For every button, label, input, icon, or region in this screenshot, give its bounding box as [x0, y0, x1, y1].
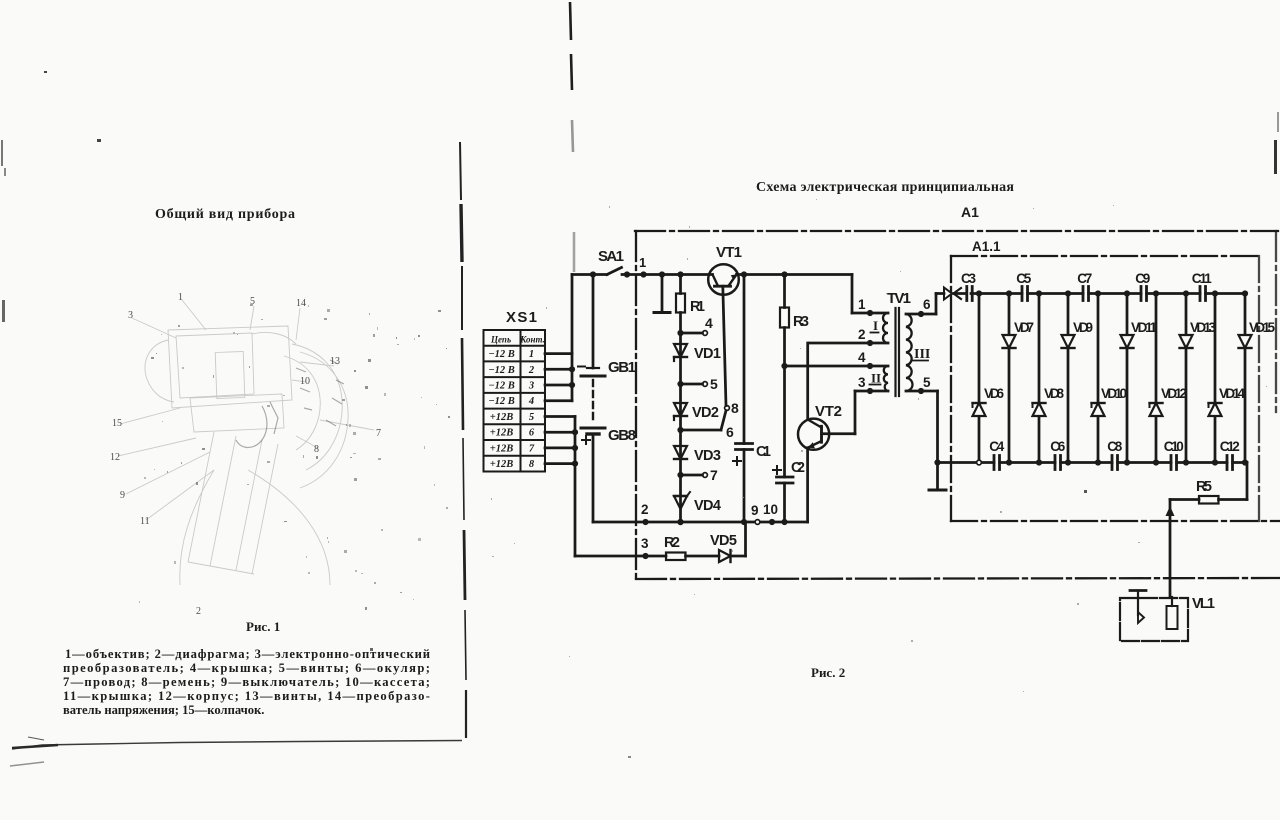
TV1 pin1 wire from top rail	[851, 275, 854, 314]
svg-text:VD6: VD6	[984, 386, 1004, 401]
svg-text:−12 В: −12 В	[488, 349, 515, 360]
svg-text:8: 8	[731, 400, 739, 416]
capacitor C10	[1170, 456, 1173, 470]
svg-text:14: 14	[296, 298, 306, 309]
svg-text:VD10: VD10	[1101, 386, 1127, 401]
svg-text:GB1: GB1	[608, 359, 636, 376]
svg-text:C10: C10	[1164, 439, 1184, 454]
svg-text:2: 2	[196, 606, 201, 617]
resistor R5	[1199, 496, 1219, 504]
svg-text:VD15: VD15	[1249, 320, 1275, 335]
svg-text:C9: C9	[1135, 271, 1150, 286]
svg-text:TV1: TV1	[887, 290, 911, 307]
svg-text:3: 3	[641, 536, 649, 551]
svg-text:6: 6	[726, 424, 734, 440]
svg-text:+12В: +12В	[490, 443, 514, 454]
svg-text:C12: C12	[1220, 439, 1240, 454]
connector XS1 table	[484, 330, 546, 472]
svg-text:XS1: XS1	[506, 309, 537, 326]
diode VD5	[719, 550, 731, 562]
svg-text:R5: R5	[1196, 479, 1212, 495]
svg-text:1: 1	[529, 349, 534, 360]
svg-text:преобразователь; 4—крышка; 5: преобразователь; 4—крышка; 5—винты; 6—ок…	[63, 661, 430, 675]
svg-text:5: 5	[923, 375, 931, 390]
VL1 screen electrode	[1171, 597, 1173, 606]
svg-text:VT2: VT2	[815, 403, 842, 420]
wire VT1 base down to contact 8	[723, 286, 726, 405]
svg-text:VL1: VL1	[1192, 596, 1215, 612]
diode VD3	[679, 430, 682, 475]
sketch darker strokes	[236, 360, 344, 447]
svg-text:VD4: VD4	[694, 498, 721, 514]
module A1.1 boundary dash-dot box	[951, 256, 1280, 521]
svg-text:C4: C4	[989, 439, 1004, 454]
output wire with arrow down to VL1	[1169, 500, 1172, 598]
svg-text:1: 1	[178, 292, 183, 303]
node 2 rail	[593, 521, 808, 524]
svg-text:VD14: VD14	[1219, 386, 1245, 401]
svg-text:4: 4	[858, 350, 866, 365]
scan speckle noise	[139, 199, 1267, 692]
svg-text:Схема электрическая принципи: Схема электрическая принципиальная	[756, 180, 1014, 195]
svg-text:VD5: VD5	[710, 533, 737, 549]
svg-text:11: 11	[140, 516, 150, 527]
svg-text:10: 10	[300, 376, 310, 387]
svg-text:13: 13	[330, 356, 340, 367]
svg-text:−12 В: −12 В	[488, 381, 515, 392]
node 10	[769, 519, 775, 525]
diode VD14 and its column wire	[1214, 294, 1217, 463]
capacitor C6	[1054, 456, 1057, 470]
node 4 tap	[677, 330, 683, 336]
chassis stub on top wire	[661, 275, 664, 313]
TV1 pin6 wire to multiplier input	[906, 313, 936, 316]
main top wire	[572, 273, 607, 276]
capacitor C3	[965, 287, 968, 301]
svg-text:VD2: VD2	[692, 405, 719, 421]
svg-text:2: 2	[858, 327, 866, 342]
junction GB1 top	[590, 271, 596, 277]
svg-text:4: 4	[528, 396, 534, 407]
svg-text:VD1: VD1	[694, 346, 721, 362]
wire VT2 collector up to TV1 pin2	[806, 343, 809, 420]
svg-text:5: 5	[529, 412, 534, 423]
svg-text:10: 10	[763, 502, 778, 517]
diode VD7 and its column wire	[1008, 294, 1011, 463]
svg-text:R2: R2	[664, 535, 680, 551]
svg-text:2: 2	[528, 365, 535, 376]
node 1 (pin of A1)	[640, 271, 646, 277]
svg-text:Общий вид прибора: Общий вид прибора	[155, 207, 295, 222]
svg-text:+12В: +12В	[490, 459, 514, 470]
svg-text:C5: C5	[1016, 271, 1031, 286]
TV1 core	[894, 308, 896, 396]
wire VD5 up to node2 rail	[744, 522, 747, 556]
svg-text:+12В: +12В	[490, 428, 514, 439]
diode VD6 and its column wire	[978, 294, 981, 463]
TV1 pin4 wire	[785, 365, 889, 368]
TV1 primary winding II	[884, 366, 888, 391]
diode VD15 and its column wire	[1244, 294, 1247, 463]
capacitor C4	[993, 456, 996, 470]
svg-text:C7: C7	[1077, 271, 1092, 286]
misc faint marks	[10, 762, 44, 766]
battery GB1	[592, 275, 595, 369]
contact 9	[755, 520, 760, 525]
capacitor C7	[1082, 287, 1085, 301]
svg-text:1: 1	[858, 297, 866, 312]
wire VT2 base to TV1 pin3	[822, 432, 856, 435]
svg-text:II: II	[871, 371, 881, 386]
node 7 tap	[677, 472, 683, 478]
node 5 tap	[677, 381, 683, 387]
svg-text:A1.1: A1.1	[972, 239, 1001, 254]
svg-text:11—крышка; 12—корпус; 13—вин: 11—крышка; 12—корпус; 13—винты, 14—преоб…	[63, 689, 430, 703]
svg-text:I: I	[873, 318, 878, 333]
svg-text:VD7: VD7	[1014, 320, 1034, 335]
page fold dashes top	[570, 2, 574, 272]
svg-text:7: 7	[710, 467, 718, 483]
zener VD2	[679, 384, 682, 430]
figure sketch of device (faint)	[118, 300, 374, 585]
svg-text:−12 В: −12 В	[488, 365, 515, 376]
svg-text:R3: R3	[793, 314, 809, 330]
svg-text:VD8: VD8	[1044, 386, 1064, 401]
diode VD8 and its column wire	[1038, 294, 1041, 463]
callout numbers	[110, 292, 381, 617]
left page right edge (scan)	[460, 142, 466, 738]
svg-text:8: 8	[529, 459, 535, 470]
svg-text:VD9: VD9	[1073, 320, 1093, 335]
junction R3/C2/pin4	[781, 363, 787, 369]
TV1 secondary winding III	[906, 314, 913, 391]
svg-text:15: 15	[112, 418, 122, 429]
svg-text:3: 3	[528, 381, 534, 392]
ground (chassis)	[934, 459, 940, 465]
svg-text:C3: C3	[961, 271, 976, 286]
svg-text:VD3: VD3	[694, 448, 721, 464]
svg-text:SA1: SA1	[598, 248, 624, 265]
svg-text:VD13: VD13	[1190, 320, 1216, 335]
svg-text:4: 4	[705, 315, 713, 331]
diode VD12 and its column wire	[1155, 294, 1158, 463]
svg-text:12: 12	[110, 452, 120, 463]
svg-text:5: 5	[710, 376, 718, 392]
svg-text:8: 8	[314, 444, 319, 455]
diode VD4	[679, 475, 682, 522]
capacitor C11	[1199, 287, 1202, 301]
figure 1 legend text	[63, 647, 430, 717]
svg-text:6: 6	[529, 428, 535, 439]
capacitor C12	[1226, 456, 1229, 470]
wire from C12 to R5	[1246, 463, 1249, 500]
row 3 wire with R2 and VD5	[575, 555, 666, 558]
node 6 stub and switch arm to node 8	[677, 427, 683, 433]
svg-text:3: 3	[128, 310, 133, 321]
TV1 primary winding I	[883, 313, 888, 343]
svg-text:Рис. 2: Рис. 2	[811, 665, 845, 680]
dashed battery stack between GB1 and GB8	[592, 380, 594, 424]
svg-text:2: 2	[641, 502, 649, 517]
svg-text:6: 6	[923, 297, 931, 312]
switch SA1 arm	[607, 268, 622, 275]
svg-text:7: 7	[529, 443, 535, 454]
svg-text:C1: C1	[756, 444, 771, 460]
TV1 pin5 wire down to common rail	[906, 390, 938, 393]
wire GB8 minus down to node2 rail	[592, 434, 595, 522]
svg-text:7—провод; 8—ремень; 9—выключ: 7—провод; 8—ремень; 9—выключатель; 10—ка…	[63, 675, 430, 689]
VL1 photocathode electrode	[1130, 589, 1146, 592]
diode VD11 and its column wire	[1126, 294, 1129, 463]
svg-text:GB8: GB8	[608, 427, 636, 444]
svg-text:Цепь: Цепь	[490, 335, 511, 345]
multiplier top rail	[971, 292, 1022, 295]
wires XS1 rows 5-8 to +12V bus	[545, 415, 575, 418]
svg-text:C8: C8	[1107, 439, 1122, 454]
svg-text:R1: R1	[690, 299, 705, 315]
svg-text:C2: C2	[791, 460, 805, 476]
svg-text:VT1: VT1	[716, 244, 742, 261]
resistor R1	[677, 271, 683, 277]
battery GB8	[581, 427, 605, 430]
capacitor C2 (electrolytic)	[777, 476, 794, 479]
svg-text:−12 В: −12 В	[488, 396, 515, 407]
connector XS1 cell text	[488, 335, 545, 471]
detachable contact (socket triangle + plug arrow)	[944, 288, 952, 300]
left page bottom tear edge	[12, 741, 462, 750]
svg-text:ватель напряжения; 15—колпач: ватель напряжения; 15—колпачок.	[63, 703, 264, 717]
svg-text:VD12: VD12	[1161, 386, 1187, 401]
module A1 boundary dash-dot box	[635, 231, 1280, 579]
svg-text:+12В: +12В	[490, 412, 514, 423]
TV1 pin2 wire	[810, 342, 889, 345]
resistor R2	[666, 553, 686, 561]
wire VT2 emitter down to node2 rail	[806, 448, 809, 522]
svg-text:C6: C6	[1050, 439, 1065, 454]
svg-text:3: 3	[858, 375, 866, 390]
svg-text:9: 9	[751, 503, 759, 518]
zener VD1	[679, 333, 682, 384]
diode VD10 and its column wire	[1097, 294, 1100, 463]
diode VD9 and its column wire	[1067, 294, 1070, 463]
multiplier bottom rail	[938, 461, 995, 464]
svg-text:C11: C11	[1192, 271, 1212, 286]
-12V bus vertical	[571, 275, 574, 401]
capacitor C8	[1111, 456, 1114, 470]
svg-text:1—объектив; 2—диафрагма; 3—э: 1—объектив; 2—диафрагма; 3—электронно-оп…	[65, 647, 430, 661]
resistor R3	[781, 271, 787, 277]
svg-text:7: 7	[376, 428, 381, 439]
svg-text:Конт.: Конт.	[519, 335, 545, 345]
svg-text:9: 9	[120, 490, 125, 501]
svg-text:A1: A1	[961, 204, 979, 220]
svg-text:VD11: VD11	[1131, 320, 1157, 335]
capacitor C1	[741, 271, 747, 277]
TV1 pin3 wire	[855, 390, 888, 393]
svg-text:Рис. 1: Рис. 1	[246, 619, 280, 634]
capacitor C9	[1140, 287, 1143, 301]
capacitor C5	[1021, 287, 1024, 301]
svg-text:1: 1	[639, 255, 646, 270]
diode VD13 and its column wire	[1185, 294, 1188, 463]
+12V bus vertical down to R2 row	[574, 417, 577, 557]
wires XS1 rows 1-4 to -12V bus	[545, 352, 572, 355]
